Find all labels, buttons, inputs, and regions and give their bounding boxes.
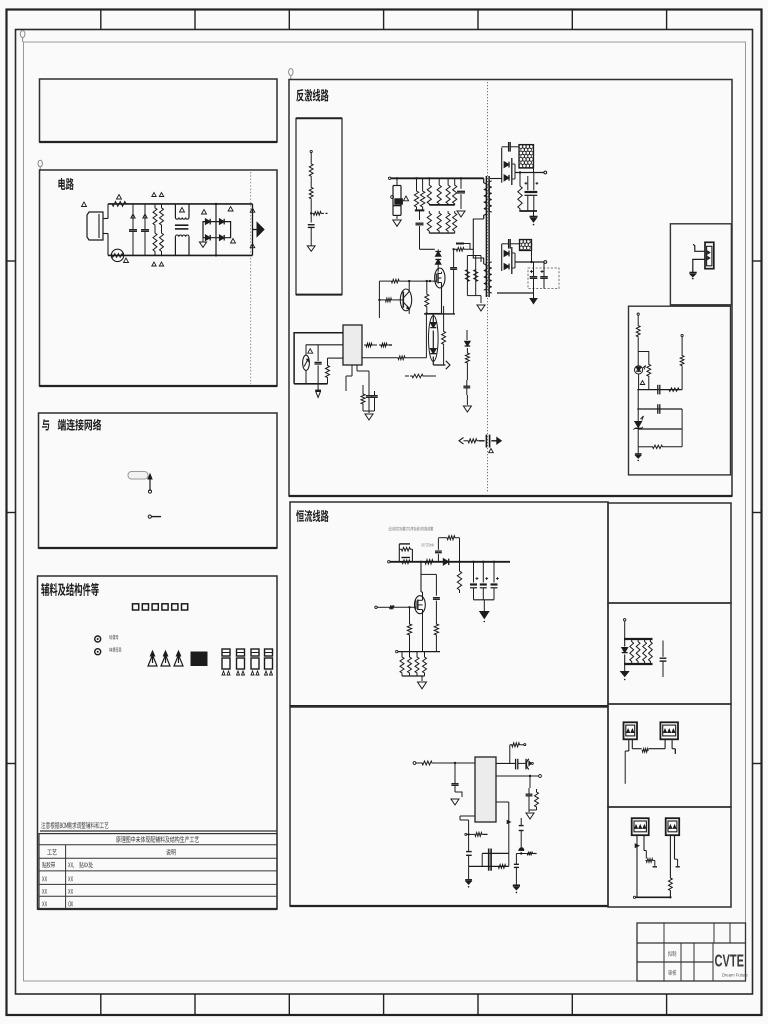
wire mid rail [306,344,343,346]
resistor R92 [643,640,647,663]
resistor R33 [518,171,522,211]
wire snub [464,244,474,250]
resistor R10b [309,186,313,222]
capacitor C66 [514,850,521,884]
wire output bus [252,204,254,256]
ground G70 [621,664,629,680]
wire q10 drain [421,592,423,596]
resistor R2b [160,229,164,255]
bridge loop [203,222,231,238]
resistor R10 [309,150,313,186]
block box B8d [608,807,731,907]
net marker [640,381,644,385]
wire r51 [466,366,468,380]
resistor RB1 [399,544,412,562]
label nut1 [109,635,118,640]
net marker [117,195,122,200]
resistor R49 [442,306,446,365]
isolation dashed line B2 [250,172,252,384]
transformer T1 sec bot [489,262,492,293]
wire gate [0,0,1,1]
capacitor CE2 [525,176,532,211]
resistor R1b [153,229,157,255]
block box B7 [290,707,608,906]
wire aux route [473,219,483,264]
wire low bus [429,232,454,234]
resistor R80 [416,761,475,765]
ic U1 pwm [343,325,362,365]
net marker [131,214,135,218]
polar mark [518,847,524,850]
capacitor CX2 [141,204,149,256]
wire vcc top [294,333,343,384]
resistor R46 gate [379,279,436,283]
wire drain feed [420,248,435,250]
standoff 3 [174,651,183,666]
resistor R70 [438,536,459,562]
diode D20 [490,148,515,185]
thermistor RT1 [111,249,123,261]
standoff 2 [161,651,170,666]
resistor R60 [636,325,640,338]
net marker [124,258,129,263]
resistor R25 [453,178,457,205]
wire ic bottom 1 [346,365,352,391]
resistor R29 snub [454,248,466,252]
block box B1 [40,79,278,142]
wire fb bus2 [637,390,682,421]
connector pill [128,472,148,480]
logo tagline [722,973,749,978]
net marker [143,214,147,218]
wire cc bus [388,561,510,563]
connector J11 [660,722,678,739]
wire sub join [363,410,375,412]
wire bot rail b7 [469,865,509,867]
ground G30 [315,384,321,398]
resistor R11 [313,212,328,216]
net marker [228,207,233,212]
capacitor CE11 [480,561,488,600]
capacitor C43 [463,380,470,395]
wire q2 e [408,309,410,314]
ground G62 [465,866,472,887]
net marker [250,208,255,212]
capacitor C40 [315,345,322,384]
ground G2 [457,211,465,217]
table r5c2 [68,901,73,906]
resistor R21 [420,178,424,208]
diode D50 [622,639,628,664]
capacitor C61 [516,759,526,770]
wire ic bottom 2 [357,365,369,391]
block box B4 [38,576,278,909]
diode D12 [465,330,471,350]
label hengliu [296,510,329,522]
resistor R61 [647,363,651,389]
capacitor C31 [502,239,520,249]
ic U10 [475,757,496,822]
wire aux bot [467,296,481,303]
ground G60 [451,792,459,805]
wire join63 [529,801,537,810]
svg-text:Dream Future: Dream Future [722,973,749,978]
wire j13 left pin [669,835,671,877]
capacitor CE12 [491,561,499,600]
net marker [202,210,207,215]
checkbox squares [133,604,188,610]
capacitor CE1 bulk [391,177,403,219]
ground G3 [477,305,485,311]
ground G1 [393,220,401,226]
ground G10 [307,246,315,251]
resistor R28 [446,211,450,233]
wire b8b top [624,619,626,639]
isolation dotted line [487,82,489,493]
mosfet Q1 [435,268,445,288]
resistor R2a [160,204,164,229]
wire q10 source [422,614,424,652]
wire feed [378,281,380,318]
ground G50 [480,600,489,623]
note text [40,822,277,831]
table r4c2 [68,889,73,894]
diode D11 [435,260,441,272]
wire source [427,284,442,314]
output arrow [253,223,265,237]
capacitor C65 big [489,849,491,871]
arrow drive [446,361,450,369]
transformer T1 aux [484,264,487,290]
resistor R74 [434,614,438,652]
sub box feedback [629,306,731,475]
resistor R76 [408,652,412,676]
resistor R32 sense [474,256,478,296]
inductor FB1 [519,145,534,168]
resistor R96 [669,877,673,897]
connector J12 [632,818,649,835]
resistor R75 [400,652,404,676]
capacitor C70 [660,641,667,678]
wire fb bus1 [637,385,682,395]
cap holder 2 [237,649,245,675]
annotation 8v [422,543,434,547]
wire j12 left pin [635,835,639,897]
table r4c1 [42,889,47,894]
resistor R95 [644,835,657,867]
net marker [489,449,494,453]
net marker [250,244,255,248]
wire pin3 [496,802,510,866]
optocoupler U2 [429,313,439,365]
fuse F1 [110,202,128,207]
capacitor C60 [451,776,458,792]
resistor R22 [427,177,431,205]
transformer T1 sec top [489,181,492,212]
capacitor C30 snub [502,142,519,152]
ground G31 [365,411,373,420]
wire pin left [460,816,475,851]
net marker [403,196,408,201]
block box B3 [39,413,278,548]
input dot [413,762,416,765]
wire cc bot bus [396,650,440,652]
capacitor CY1 isolation [459,435,501,448]
marker ellipse above B5 [289,69,293,80]
resistor R94 [632,739,665,752]
label B3 [42,419,101,431]
ground G40 [689,273,696,280]
ground G61 [526,810,534,819]
wire pin2 drop [529,775,531,788]
mosfet Q10 [415,596,426,614]
wire bottom rail [108,254,253,256]
net marker [231,239,236,244]
table r3c1 [42,876,47,881]
resistor R20 [414,177,418,208]
resistor R82 [535,776,539,810]
wire fb to ic [425,312,427,357]
wire aux top [467,256,481,263]
diode D21 [502,244,515,274]
resistor R30 [425,281,429,314]
table r1c1 [47,849,56,855]
wire q2 c [408,280,410,292]
marker ellipse above B2 [38,160,42,170]
wire arrow up [148,474,152,493]
capacitor C42 [371,391,377,411]
wire in junction [454,762,456,776]
resistor R81 [510,743,526,764]
nut symbol 2 [95,649,101,655]
wire c60 [455,792,462,797]
capacitor C20 [457,177,465,209]
resistor R40 [326,358,344,384]
capacitor C63 [526,788,533,801]
zener D30 [633,416,643,430]
ground G32 [463,395,471,412]
transistor Q2 [400,289,411,311]
net marker [308,349,313,354]
wire j13 stub [675,835,680,867]
resistor R45 [405,374,436,378]
title text nizhi [668,951,676,957]
wire ce join [474,599,495,601]
diode D3 [205,235,210,241]
label fanjixianlu [296,89,328,102]
black pad [191,652,207,666]
resistor R44 [361,385,365,411]
resistor R90 [630,640,634,663]
svg-text:CVTE: CVTE [715,951,745,971]
block box B6 [290,502,608,706]
resistor R31 sense [465,256,469,296]
resistor R24 [446,178,450,205]
transformer T1 primary [484,178,487,219]
table header [116,836,199,843]
wire cc vert [420,561,437,592]
cap holder 4 [265,649,273,675]
table r5c1 [42,901,47,906]
resistor R85 [520,852,537,856]
inductor L2 [423,560,435,564]
net marker [159,262,163,266]
block box B8a [608,503,731,603]
title text shenhe [668,970,676,976]
wire fb [637,338,639,366]
wire pin2 [496,775,541,778]
capacitor CE5 [540,262,548,289]
table r2c1 [42,862,55,868]
standoff 1 [148,651,157,666]
connector J2 [693,242,714,272]
net marker [159,193,163,197]
block box B8b [608,603,731,704]
net marker [180,208,185,213]
capacitor C21 [416,223,424,249]
resistor R84 [498,865,507,869]
diode D2 [219,219,224,225]
vcc source V1 [303,345,310,384]
wire j10 pins [625,739,632,751]
capacitor CX1 [129,204,137,256]
wire bot rail [294,383,327,385]
wire top rail [108,203,253,205]
nut symbol 1 [95,636,101,642]
resistor R63 [638,428,682,453]
wire drive [433,364,445,366]
net marker [152,193,156,197]
ground G20 [530,211,538,225]
wire pin1 [496,762,515,764]
capacitor C51 [433,574,440,614]
wire top bus [389,177,484,179]
title block table [637,923,746,981]
net marker [82,202,87,207]
wire fb bus3 [638,409,682,447]
common-mode choke L1 [175,204,189,256]
diode D10 [435,249,441,256]
connector J10 [624,722,638,739]
resistor R93 [649,640,653,663]
wire sec bot bus [492,289,534,294]
resistor R51 [465,350,469,366]
net marker [152,262,156,266]
connector J13 [666,818,680,835]
capacitor C23 [450,248,457,314]
diode D4 [219,235,224,241]
cap holder 1 [222,649,230,675]
capacitor CE3 [531,173,539,212]
block box B2 [40,170,278,386]
inductor FB2 [520,240,532,251]
wire sec top join [519,210,537,212]
resistor R62 [680,335,684,390]
diode D40 [443,559,448,565]
table r2c2 [68,862,93,869]
wire mid rail b7 [482,853,509,866]
capacitor C10 [308,225,315,246]
ground G41 [635,454,642,461]
wire r2021 bar [415,208,425,220]
cap holder 3 [251,649,259,675]
wire out top [515,168,547,174]
resistor R78 [423,652,427,676]
resistor R26 [427,211,431,233]
table r3c2 [68,876,73,881]
capacitor C50 [435,538,442,562]
block box B8c [608,704,731,807]
label dianlu [58,178,73,190]
block box B5 [289,80,732,497]
wire bridge center [215,203,217,257]
corner marker [20,31,25,43]
capacitor CE10 [470,561,478,600]
wire j10 down [624,751,626,784]
wire b8d bottom [633,896,671,898]
process table grid [39,834,277,909]
wire j11 stub [672,739,675,754]
transformer T1 core [486,176,489,297]
capacitor C62 [526,759,533,770]
wire mid bus [429,204,454,206]
sub box connector [670,224,731,305]
resistor R73 [407,606,411,652]
resistor R77 [415,652,419,676]
resistor R47 base [378,298,403,302]
ground G21 [530,293,537,304]
resistor R43 [362,356,426,360]
ground G51 [418,682,427,689]
capacitor C64 [466,852,472,867]
annotation tiny [389,527,434,531]
capacitor CE4 [530,262,538,289]
label B4 [41,583,99,596]
capacitor C41 [366,391,372,411]
table r1c2 [166,849,175,855]
resistor R28b [453,211,457,233]
label nut2 [109,647,121,652]
connector J1 AC inlet [87,204,108,256]
logo CVTE [715,951,745,971]
capacitor C22 snub [456,243,464,245]
wire out bot [515,251,547,264]
resistor R83 [465,833,488,837]
resistor R1a [153,204,157,229]
resistor R71 [457,561,461,593]
pin stub [148,515,161,518]
optocoupler U3 led [635,366,646,390]
resistor R91 [636,640,640,663]
resistor R42 [379,343,392,347]
capacitor C63b [519,818,524,847]
wire r join [402,676,425,681]
wire source bus [424,313,455,315]
resistor R41 [364,343,377,347]
diode D1 [205,219,210,225]
ground bridge [199,238,206,248]
dashed box caps [528,268,559,289]
resistor R27 [437,211,441,233]
wire fb branch [638,352,649,364]
wire rail bot [624,663,653,665]
wire fb top [637,313,639,325]
resistor RB2 [400,558,412,564]
resistor R72 gate [375,605,416,609]
resistor R23 [437,178,441,205]
wire rail top [624,638,653,640]
ground G63 [513,885,520,893]
